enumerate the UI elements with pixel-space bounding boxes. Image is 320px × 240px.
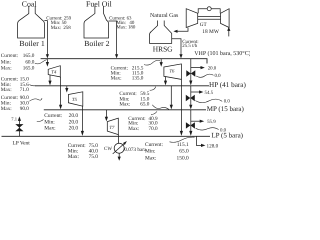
leader squiggle MP (29, 98, 42, 101)
leader squiggle 115.1 (170, 137, 195, 142)
LP vent text block (44, 113, 78, 131)
svg-text:Boiler 2: Boiler 2 (84, 39, 109, 48)
leader squiggle vent (37, 119, 44, 121)
svg-text:115.1: 115.1 (177, 142, 189, 148)
svg-text:LP Vent: LP Vent (13, 140, 31, 146)
letdown line HP-MP (190, 86, 192, 106)
letdown line VHP-HP (190, 59, 192, 81)
svg-text:Boiler 1: Boiler 1 (19, 39, 44, 48)
svg-text:Fuel Oil: Fuel Oil (86, 0, 113, 8)
svg-text:75.0: 75.0 (89, 154, 99, 160)
svg-text:Max:: Max: (44, 125, 56, 131)
svg-text:Max:: Max: (128, 126, 140, 132)
leader squiggle T6 (144, 60, 160, 65)
boiler B1 flow text block (46, 15, 71, 31)
leader squiggle 59.5 upper (150, 87, 156, 91)
leader squiggle 40.9 (151, 111, 157, 114)
VHP text block (1, 53, 35, 72)
svg-text:150.0: 150.0 (177, 155, 189, 161)
svg-text:GT: GT (200, 22, 208, 28)
svg-text:T4: T4 (51, 70, 57, 76)
svg-text:Max:: Max: (51, 25, 61, 31)
svg-text:MP (15 bara): MP (15 bara) (207, 105, 245, 113)
wire T4 extraction to MP header (60, 77, 62, 106)
wire T4 exhaust to HP header (49, 75, 51, 81)
HRSG flow text block (182, 39, 198, 49)
svg-text:165.0: 165.0 (23, 66, 35, 72)
wire LP export arrow 128.0 (196, 136, 201, 145)
svg-text:T7: T7 (109, 125, 115, 131)
valve V1 VHP-HP letdown (186, 70, 195, 76)
leader squiggle 0.0 V2 (195, 99, 222, 103)
valve V3 MP-LP letdown (186, 122, 195, 128)
svg-text:Max:: Max: (119, 102, 131, 108)
boiler B1 vessel (18, 6, 45, 38)
condenser circle (114, 143, 124, 153)
LP header (2, 135, 211, 137)
svg-text:20.0: 20.0 (69, 113, 79, 119)
svg-text:Current:: Current: (145, 142, 163, 148)
svg-text:54.5: 54.5 (205, 90, 214, 96)
wire MP to T7 inlet (105, 110, 107, 118)
svg-text:T6: T6 (169, 68, 175, 74)
svg-text:T5: T5 (72, 97, 78, 103)
gas turbine GT compressor (186, 9, 198, 28)
boiler B2 vessel (84, 6, 109, 38)
turbine T5 (68, 92, 82, 106)
wire T6 exhaust to HP header (165, 77, 167, 82)
svg-text:CW: CW (104, 146, 112, 152)
wire VHP export arrow 20.0 (191, 67, 201, 69)
svg-text:70.0: 70.0 (149, 126, 158, 132)
svg-text:Min:: Min: (145, 149, 156, 155)
svg-text:Min:: Min: (1, 59, 12, 65)
svg-text:Max:: Max: (116, 25, 126, 31)
svg-text:0.0: 0.0 (215, 73, 222, 79)
svg-text:0.073 bara: 0.073 bara (124, 147, 147, 153)
HP header (35, 85, 209, 87)
wire boiler B1 steam to VHP header (44, 21, 47, 55)
LP vent line (18, 120, 20, 136)
wire HP export arrow 54.5 (191, 91, 200, 93)
T6 text block (111, 65, 144, 81)
svg-text:Max:: Max: (1, 87, 13, 93)
svg-text:Natural Gas: Natural Gas (150, 12, 179, 19)
svg-text:Coal: Coal (22, 0, 38, 8)
turbine T6 (164, 64, 182, 80)
svg-text:55.9: 55.9 (207, 119, 216, 125)
svg-text:128.0: 128.0 (207, 143, 219, 149)
svg-text:20.0: 20.0 (69, 125, 79, 131)
condenser text block (68, 143, 99, 160)
turbine T4 (48, 66, 60, 77)
svg-text:165.0: 165.0 (23, 53, 35, 59)
condenser CW arrow (113, 144, 124, 154)
svg-text:0.0: 0.0 (220, 127, 227, 133)
svg-text:Max:: Max: (111, 75, 123, 81)
letdown line MP-LP (190, 110, 192, 132)
leader squiggle 0.0 V1 (196, 74, 213, 77)
svg-text:65.0: 65.0 (179, 149, 189, 155)
svg-text:LP (5 bara): LP (5 bara) (211, 132, 243, 140)
VHP header (41, 59, 207, 64)
wire VHP to T6 inlet (160, 59, 162, 63)
GT shaft (198, 16, 221, 19)
svg-text:Max:: Max: (145, 155, 157, 161)
wire T6 extraction to LP header (180, 79, 182, 131)
GT generator link (198, 9, 220, 14)
svg-text:0.0: 0.0 (224, 99, 231, 105)
MP text block (1, 95, 29, 112)
wire HP to T5 inlet (66, 86, 68, 89)
wire GT exhaust to HRSG (177, 28, 188, 32)
svg-text:18 MW: 18 MW (202, 29, 220, 35)
leader squiggle HP (29, 85, 35, 86)
wire HP to MP bypass (170, 86, 172, 106)
MP header (44, 109, 206, 111)
boiler B2 flow text block (109, 15, 136, 30)
svg-text:25.5 t/h: 25.5 t/h (182, 43, 197, 49)
svg-text:60.0: 60.0 (25, 59, 34, 65)
valve V2 HP-MP letdown (186, 95, 195, 101)
wire HRSG steam to VHP header (172, 39, 181, 55)
svg-text:7.1: 7.1 (11, 116, 17, 121)
wire MP export arrow 55.9 (191, 120, 201, 122)
svg-text:135.0: 135.0 (132, 75, 144, 81)
wire T5 exhaust to LP header (81, 106, 83, 131)
HP-MP text block (119, 91, 149, 108)
turbine T7 (107, 118, 118, 135)
svg-text:65.0: 65.0 (140, 102, 149, 108)
wire GT fuel inlet arrow (228, 30, 230, 36)
svg-text:71.0: 71.0 (20, 87, 29, 93)
svg-text:90.0: 90.0 (20, 106, 29, 112)
svg-text:HP (41 bara): HP (41 bara) (209, 81, 246, 89)
svg-text:20.0: 20.0 (208, 65, 217, 71)
svg-text:258: 258 (63, 25, 71, 31)
svg-text:Max:: Max: (68, 154, 80, 160)
LP text block (145, 142, 189, 162)
GT generator circle (207, 7, 211, 11)
wire VHP to T4 inlet (46, 59, 48, 63)
leader squiggle VHP (35, 60, 47, 64)
gas turbine GT expander (221, 9, 230, 28)
svg-text:Max:: Max: (1, 106, 13, 112)
leader squiggle 0.0 V3 (196, 128, 219, 130)
LP vent valve (15, 124, 23, 131)
leader squiggle 59.5 lower (152, 105, 169, 110)
HRSG vessel (150, 21, 172, 44)
wire T7 exhaust to condenser (118, 135, 120, 144)
svg-text:VHP (101 bara, 530°C): VHP (101 bara, 530°C) (194, 50, 250, 57)
svg-text:Current:: Current: (44, 113, 62, 119)
svg-text:HRSG: HRSG (153, 44, 173, 53)
HP text block (1, 76, 29, 93)
wire boiler B2 steam to VHP header (109, 21, 117, 55)
svg-text:Current:: Current: (1, 53, 19, 59)
svg-text:Max:: Max: (1, 66, 13, 72)
T7 text block (128, 116, 158, 132)
svg-text:180: 180 (128, 25, 136, 31)
wire condensate out (118, 153, 120, 157)
